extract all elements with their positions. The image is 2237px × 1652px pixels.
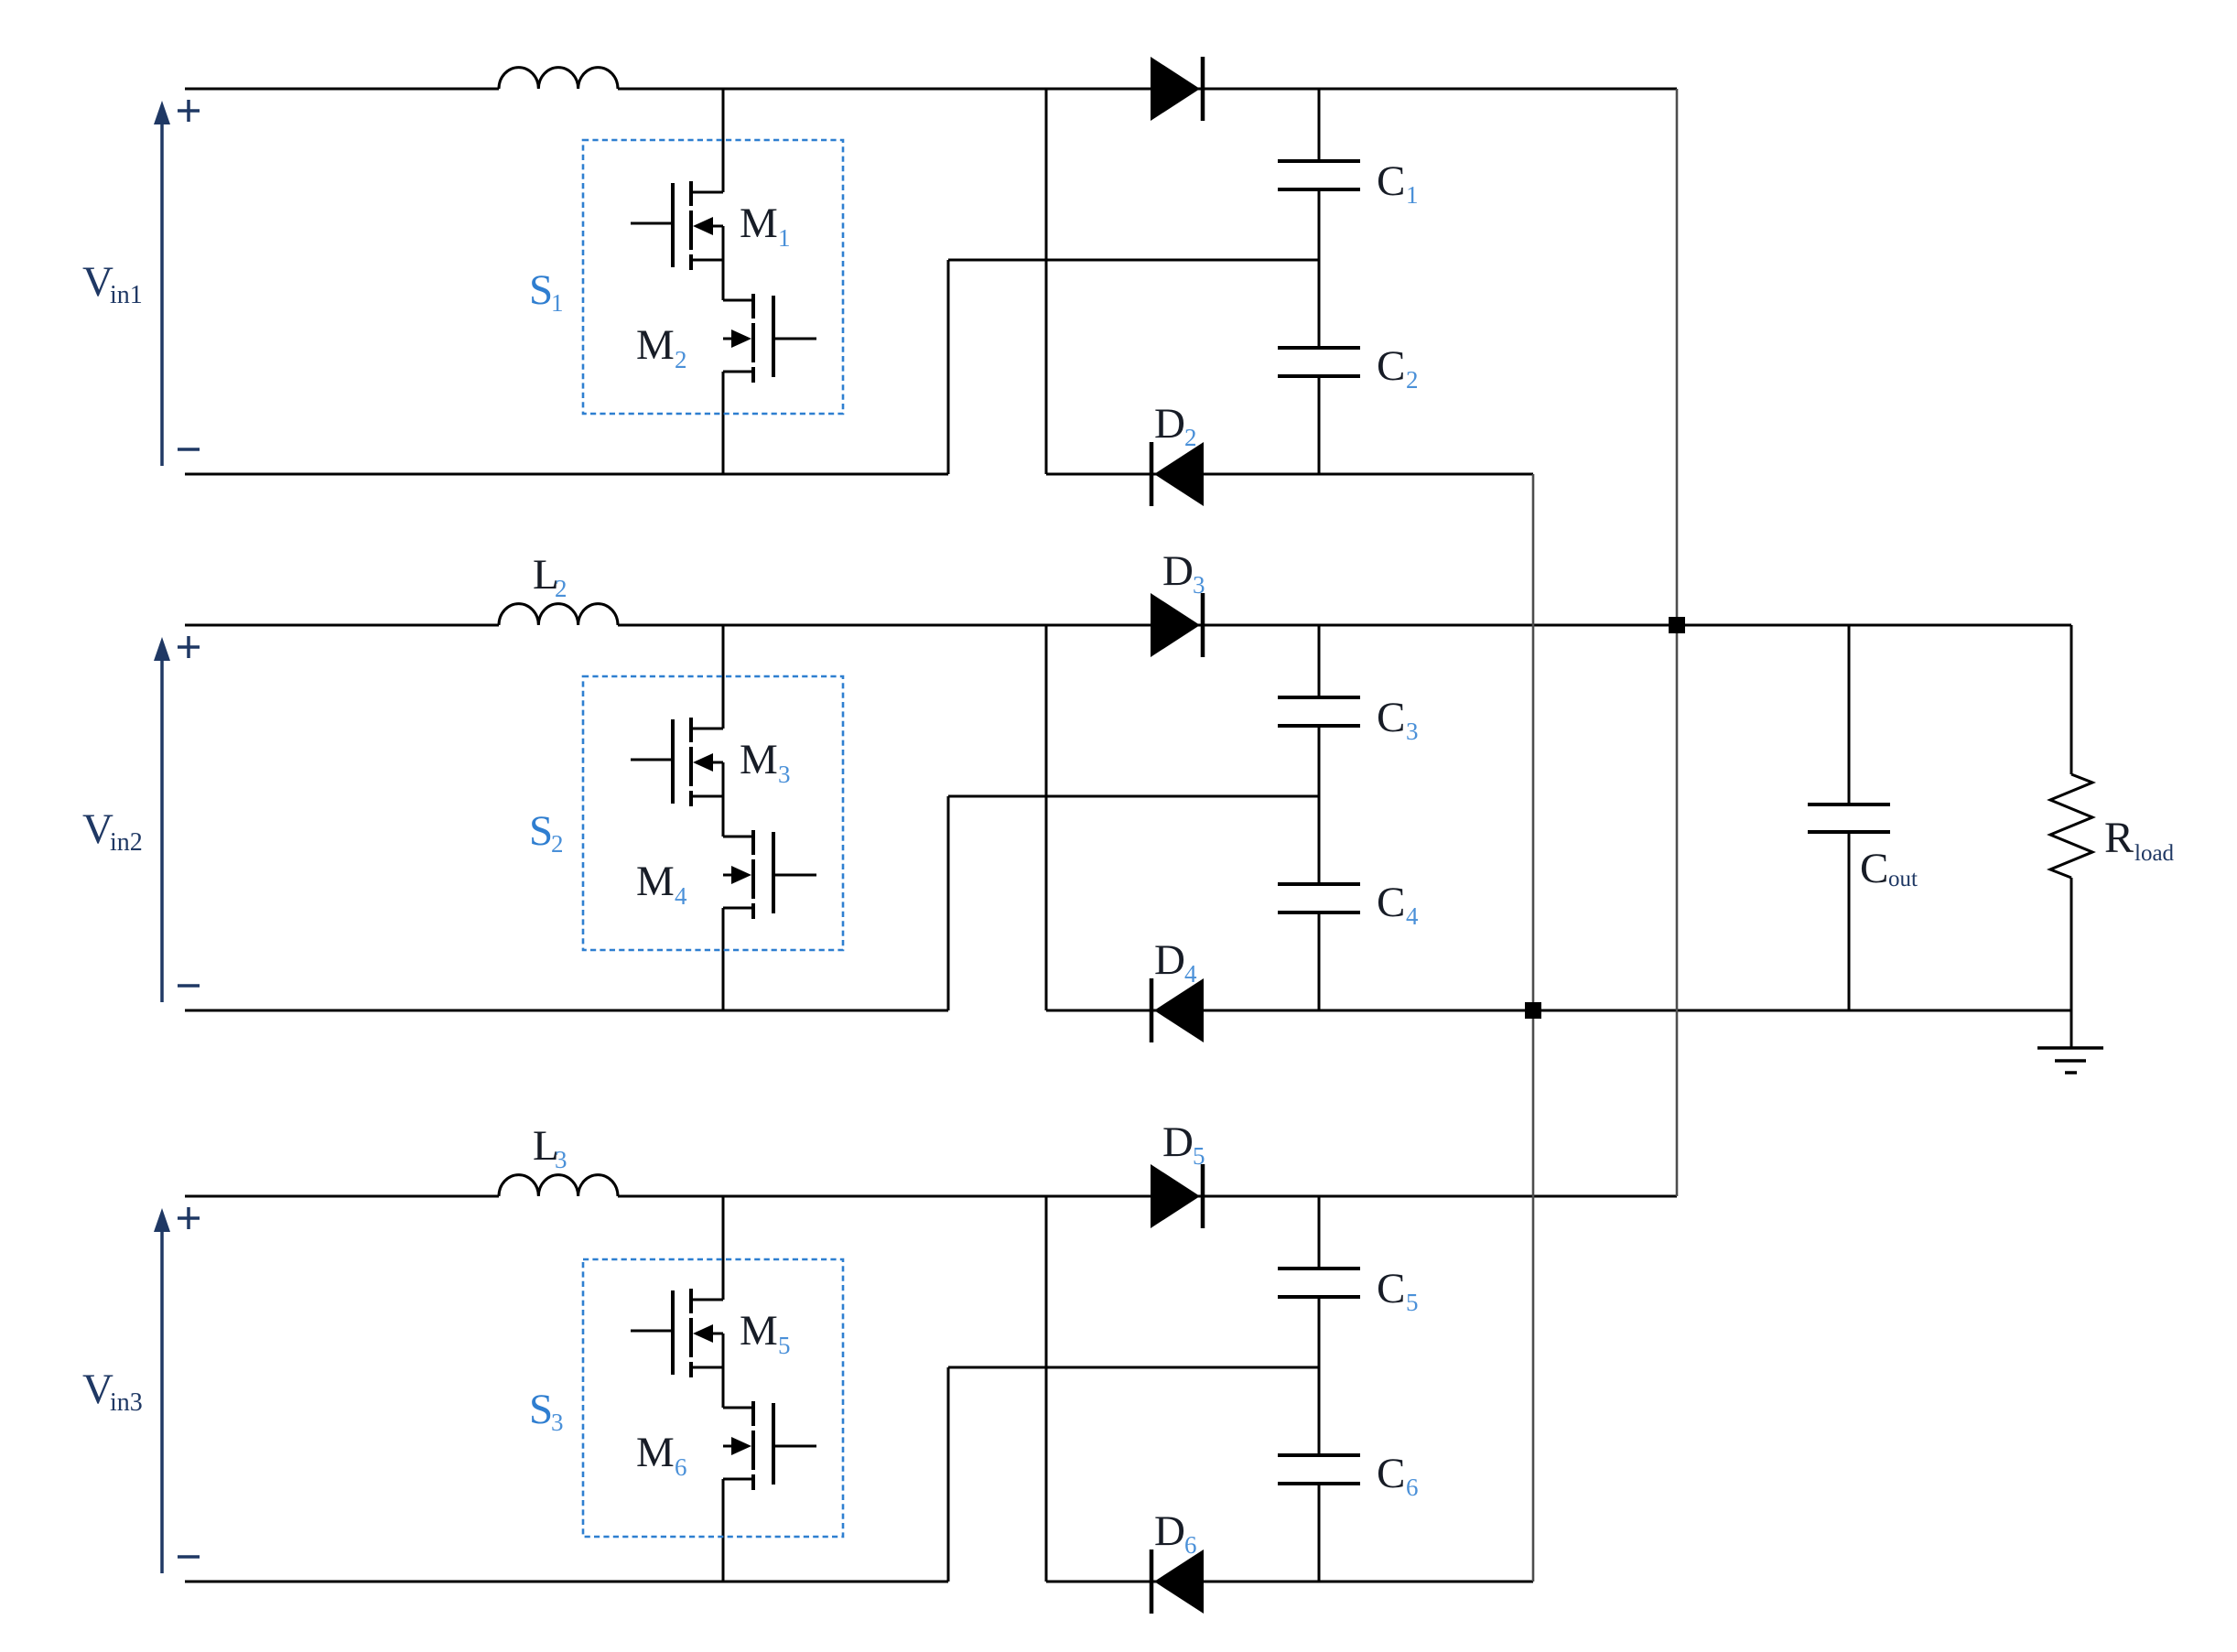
svg-text:S: S <box>529 266 553 314</box>
svg-text:1: 1 <box>778 224 791 252</box>
svg-text:2: 2 <box>1184 424 1197 451</box>
svg-text:C: C <box>1377 1450 1405 1497</box>
svg-text:C: C <box>1377 879 1405 926</box>
svg-text:M: M <box>740 1307 778 1355</box>
svg-text:C: C <box>1860 845 1888 892</box>
svg-text:4: 4 <box>1184 960 1197 988</box>
svg-text:in3: in3 <box>110 1388 143 1417</box>
svg-text:1: 1 <box>551 289 564 317</box>
svg-text:M: M <box>740 736 778 783</box>
svg-text:D: D <box>1162 547 1194 595</box>
svg-text:M: M <box>636 321 675 369</box>
svg-text:1: 1 <box>1406 181 1419 209</box>
svg-text:load: load <box>2134 841 2175 866</box>
svg-text:3: 3 <box>1406 718 1419 745</box>
svg-text:4: 4 <box>675 882 687 910</box>
svg-text:C: C <box>1377 1265 1405 1312</box>
svg-text:V: V <box>82 258 113 306</box>
svg-text:in2: in2 <box>110 828 143 857</box>
svg-text:D: D <box>1154 400 1185 448</box>
svg-text:5: 5 <box>1406 1289 1419 1316</box>
svg-text:V: V <box>82 805 113 853</box>
svg-text:M: M <box>636 858 675 905</box>
svg-text:in1: in1 <box>110 281 143 309</box>
svg-text:3: 3 <box>1193 571 1205 599</box>
svg-text:4: 4 <box>1406 902 1419 930</box>
svg-text:2: 2 <box>551 830 564 858</box>
svg-text:out: out <box>1888 867 1918 891</box>
svg-text:2: 2 <box>675 346 687 373</box>
svg-text:M: M <box>740 200 778 247</box>
svg-text:C: C <box>1377 694 1405 741</box>
svg-text:V: V <box>82 1366 113 1413</box>
svg-text:5: 5 <box>778 1332 791 1359</box>
svg-text:6: 6 <box>675 1453 687 1481</box>
svg-text:R: R <box>2104 814 2134 862</box>
svg-text:5: 5 <box>1193 1142 1205 1170</box>
svg-text:3: 3 <box>555 1146 567 1173</box>
svg-text:3: 3 <box>551 1409 564 1436</box>
svg-text:D: D <box>1154 936 1185 984</box>
svg-text:D: D <box>1162 1118 1194 1166</box>
svg-text:6: 6 <box>1406 1474 1419 1501</box>
svg-text:2: 2 <box>1406 366 1419 394</box>
svg-text:C: C <box>1377 157 1405 205</box>
svg-text:M: M <box>636 1429 675 1476</box>
svg-text:3: 3 <box>778 761 791 788</box>
svg-text:S: S <box>529 1386 553 1433</box>
svg-text:C: C <box>1377 342 1405 390</box>
svg-text:2: 2 <box>555 575 567 602</box>
svg-text:S: S <box>529 807 553 855</box>
svg-text:6: 6 <box>1184 1531 1197 1559</box>
svg-text:D: D <box>1154 1507 1185 1555</box>
